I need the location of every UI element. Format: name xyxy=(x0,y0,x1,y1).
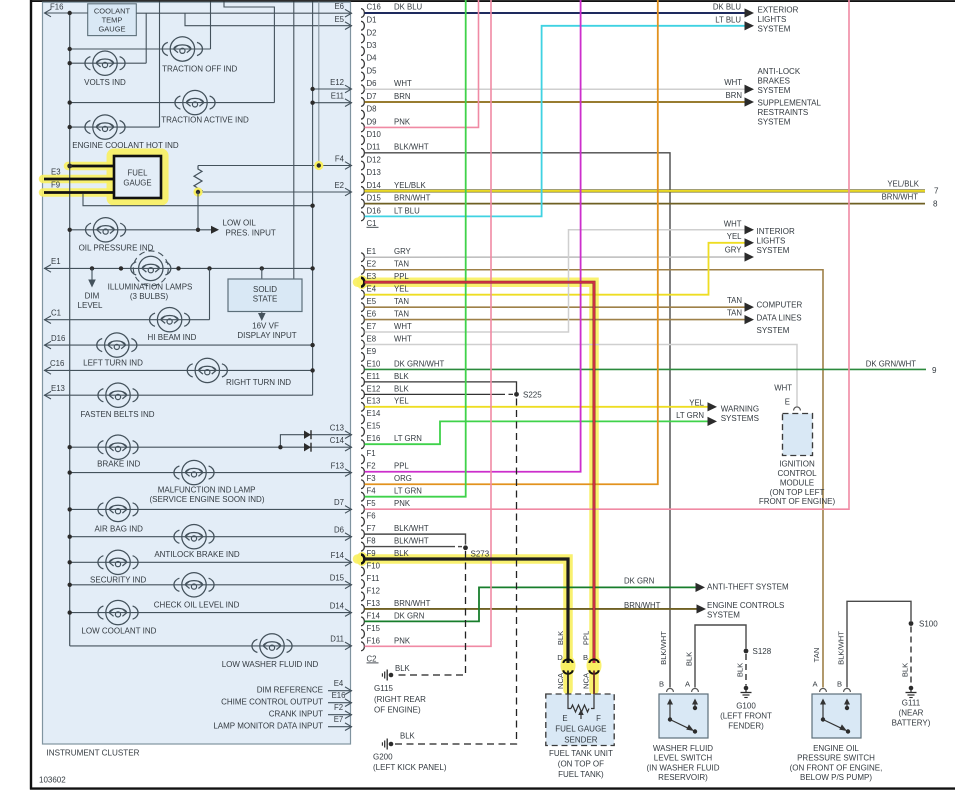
svg-text:E: E xyxy=(785,398,790,407)
svg-text:(3 BULBS): (3 BULBS) xyxy=(130,292,169,301)
pin E16 bracket xyxy=(361,440,364,449)
svg-text:FASTEN BELTS IND: FASTEN BELTS IND xyxy=(80,410,154,419)
wire F16 row to gauge xyxy=(44,12,88,14)
ground G100 xyxy=(744,686,749,691)
svg-text:MALFUNCTION IND LAMP: MALFUNCTION IND LAMP xyxy=(158,485,256,494)
svg-text:S225: S225 xyxy=(523,390,542,399)
svg-text:SYSTEM: SYSTEM xyxy=(757,326,790,335)
svg-text:E8: E8 xyxy=(367,334,377,343)
wire engine B BLK/WHT xyxy=(847,601,911,687)
pin D14 bracket xyxy=(361,187,364,196)
svg-text:INSTRUMENT CLUSTER: INSTRUMENT CLUSTER xyxy=(47,749,140,758)
pin E11 bracket xyxy=(361,377,364,386)
wire traction-active row xyxy=(70,102,275,104)
arrow to ABS WHT xyxy=(745,85,755,94)
wire D15 BRN/WHT xyxy=(365,203,926,205)
svg-text:D7: D7 xyxy=(367,92,377,101)
lamp RIGHT TURN IND xyxy=(187,358,227,382)
pin D16 arrow xyxy=(45,341,52,349)
svg-text:16V VF: 16V VF xyxy=(252,322,279,331)
svg-text:E12: E12 xyxy=(367,384,381,393)
svg-text:RESERVOIR): RESERVOIR) xyxy=(658,773,708,782)
svg-text:D15: D15 xyxy=(330,574,345,583)
svg-text:LIGHTS: LIGHTS xyxy=(758,15,787,24)
svg-text:D4: D4 xyxy=(367,54,378,63)
svg-text:OIL PRESSURE IND: OIL PRESSURE IND xyxy=(79,243,154,252)
svg-text:LOW WASHER FLUID IND: LOW WASHER FLUID IND xyxy=(222,660,319,669)
node F4 riser junction xyxy=(317,163,321,167)
wire E3 PPL highlighted black edge xyxy=(365,282,595,663)
wire dim level stub xyxy=(91,268,93,283)
wire lowwasher row D11 xyxy=(70,645,352,647)
wire 16v stub xyxy=(261,312,263,318)
lamp LOW COOLANT IND xyxy=(98,600,138,624)
svg-text:E4: E4 xyxy=(367,285,377,294)
pin E4 bracket xyxy=(361,290,364,299)
lamp SECURITY IND xyxy=(98,550,138,574)
svg-text:YEL: YEL xyxy=(394,285,409,294)
highlight glow F9 pin xyxy=(357,552,368,566)
svg-text:LOW COOLANT IND: LOW COOLANT IND xyxy=(81,626,156,635)
pin E2 bracket xyxy=(361,265,364,274)
svg-text:GAUGE: GAUGE xyxy=(123,179,151,188)
svg-text:TAN: TAN xyxy=(727,309,742,318)
svg-text:F12: F12 xyxy=(367,586,380,595)
arrow to SRS BRN xyxy=(745,97,755,106)
svg-text:BRN: BRN xyxy=(394,92,410,101)
svg-text:(ON FRONT OF ENGINE,: (ON FRONT OF ENGINE, xyxy=(790,763,883,772)
gauge box FUEL GAUGE xyxy=(114,156,161,198)
svg-text:8: 8 xyxy=(933,199,938,208)
pin E6 arrow xyxy=(345,9,352,17)
svg-text:DIM REFERENCE: DIM REFERENCE xyxy=(257,686,323,695)
svg-text:E14: E14 xyxy=(367,409,382,418)
pin F6 bracket xyxy=(361,517,364,526)
pin F10 bracket xyxy=(361,567,364,576)
wire D16 LT BLU xyxy=(365,26,746,217)
svg-text:BLK: BLK xyxy=(394,372,410,381)
wire E5 feed riser xyxy=(185,13,352,26)
highlight glow F9 cluster wire xyxy=(43,188,112,197)
node oil-resistor junction xyxy=(196,228,200,232)
svg-text:G200: G200 xyxy=(373,752,393,761)
pin D6 bracket xyxy=(361,85,364,94)
svg-text:TAN: TAN xyxy=(812,648,821,663)
wire F16 PNK xyxy=(365,0,492,646)
wire traction-off riser xyxy=(210,2,212,50)
highlight node F4 xyxy=(314,161,323,170)
wire E16 LT GRN xyxy=(365,421,709,444)
wire top jog riser xyxy=(224,2,274,103)
svg-text:D11: D11 xyxy=(330,635,344,644)
lamp CHECK OIL LEVEL IND xyxy=(174,573,214,597)
box SOLID STATE xyxy=(228,279,302,312)
pin F13 bracket xyxy=(361,605,364,614)
arrow dim level xyxy=(88,280,96,288)
node dimbus-rightturn xyxy=(310,368,314,372)
svg-text:F9: F9 xyxy=(367,549,376,558)
svg-text:LT GRN: LT GRN xyxy=(676,411,704,420)
lamp LOW WASHER FLUID IND xyxy=(252,634,292,658)
svg-text:ORG: ORG xyxy=(394,474,412,483)
page top border xyxy=(31,0,955,2)
svg-text:(ON TOP LEFT: (ON TOP LEFT xyxy=(770,488,825,497)
svg-text:BLK/WHT: BLK/WHT xyxy=(837,631,846,665)
connector NCA fuel BLK xyxy=(563,659,572,663)
wire E5 TAN xyxy=(365,306,746,308)
svg-text:BLK: BLK xyxy=(394,549,410,558)
switch engine contact A xyxy=(822,703,824,720)
wire F14 DK GRN xyxy=(365,587,697,621)
svg-text:YEL: YEL xyxy=(689,398,704,407)
svg-text:E1: E1 xyxy=(51,257,61,266)
svg-text:BLK: BLK xyxy=(685,652,694,666)
wire security row F14 xyxy=(70,561,352,563)
svg-text:C16: C16 xyxy=(367,3,381,12)
svg-text:F8: F8 xyxy=(367,536,376,545)
svg-text:E5: E5 xyxy=(334,15,344,24)
wire hi beam riser xyxy=(209,268,211,319)
pin E12 bracket xyxy=(361,390,364,399)
pin F16 arrow xyxy=(45,9,52,17)
svg-text:WASHER FLUID: WASHER FLUID xyxy=(653,744,713,753)
svg-text:DK GRN: DK GRN xyxy=(394,611,424,620)
node illum b xyxy=(119,266,123,270)
wire checkoil row D15 xyxy=(70,584,352,586)
wire solid-state riser xyxy=(293,2,295,280)
wire D6 WHT xyxy=(365,88,746,90)
pin F12 bracket xyxy=(361,592,364,601)
pin D7 arrow xyxy=(345,506,352,514)
svg-text:CHIME CONTROL OUTPUT: CHIME CONTROL OUTPUT xyxy=(221,698,323,707)
svg-text:E7: E7 xyxy=(334,715,344,724)
lamp VOLTS IND xyxy=(85,51,125,75)
svg-text:(IN WASHER FLUID: (IN WASHER FLUID xyxy=(646,763,719,772)
svg-text:D3: D3 xyxy=(367,41,377,50)
pin F3 bracket xyxy=(361,480,364,489)
svg-text:RESTRAINTS: RESTRAINTS xyxy=(758,108,809,117)
arrow to interior lights WHT xyxy=(745,225,755,234)
svg-text:BRN/WHT: BRN/WHT xyxy=(882,193,919,202)
svg-text:F9: F9 xyxy=(51,181,60,190)
wire D7 BRN xyxy=(365,101,746,103)
node dimbus-sense xyxy=(310,204,314,208)
node bus-volts xyxy=(68,61,72,65)
svg-text:WHT: WHT xyxy=(394,322,412,331)
wire F4 LT GRN xyxy=(365,0,466,497)
svg-text:COOLANT: COOLANT xyxy=(94,6,131,15)
svg-text:BLK/WHT: BLK/WHT xyxy=(659,631,668,665)
svg-text:B: B xyxy=(583,653,588,662)
svg-text:C1: C1 xyxy=(367,219,377,228)
pin C13 arrow xyxy=(345,431,352,439)
arrow to computer TAN2 xyxy=(745,315,755,324)
instrument cluster box xyxy=(43,2,351,744)
svg-text:LEVEL: LEVEL xyxy=(78,301,103,310)
node bus-tractionoff xyxy=(68,47,72,51)
connector arc washer A xyxy=(692,688,699,692)
node dimbus-E12 xyxy=(310,87,314,91)
wire F7 BLK/WHT xyxy=(365,534,466,544)
svg-text:SENDER: SENDER xyxy=(564,736,598,745)
highlight glow E3 pin xyxy=(357,275,368,289)
node bus-checkoil xyxy=(68,583,72,587)
svg-text:F4: F4 xyxy=(335,155,345,164)
svg-text:WARNING: WARNING xyxy=(721,405,759,414)
box FUEL GAUGE SENDER xyxy=(546,694,614,746)
pin E11 arrow xyxy=(345,99,352,107)
svg-text:FUEL TANK UNIT: FUEL TANK UNIT xyxy=(549,749,613,758)
svg-text:E1: E1 xyxy=(367,247,377,256)
svg-text:FUEL: FUEL xyxy=(128,169,149,178)
svg-text:D: D xyxy=(557,653,563,662)
switch engine contact B xyxy=(845,706,849,710)
pin D5 bracket xyxy=(361,72,364,81)
lamp OIL PRESSURE IND xyxy=(86,218,126,242)
svg-text:C2: C2 xyxy=(367,655,377,664)
svg-text:OF ENGINE): OF ENGINE) xyxy=(374,705,421,714)
wire illumination row E1 xyxy=(44,267,313,269)
node bus-airbag xyxy=(68,507,72,511)
svg-text:PNK: PNK xyxy=(394,117,411,126)
svg-text:BLK: BLK xyxy=(395,664,411,673)
svg-text:HI BEAM IND: HI BEAM IND xyxy=(148,333,197,342)
wire E4 stub xyxy=(328,690,352,692)
svg-text:F10: F10 xyxy=(367,561,381,570)
wire E11 stub xyxy=(313,102,352,104)
svg-text:BRN/WHT: BRN/WHT xyxy=(394,599,431,608)
svg-text:BLK: BLK xyxy=(736,663,745,677)
pin E4 arrow xyxy=(345,687,352,695)
node bus-malf xyxy=(68,470,72,474)
wire E7 WHT xyxy=(365,230,746,332)
arrow to interior lights GRY xyxy=(745,252,755,261)
node dimbus-E11 xyxy=(310,101,314,105)
pin E3 bracket highlighted xyxy=(361,278,364,287)
pin F4 arrow xyxy=(345,162,352,170)
wire D14 YEL/BLK edge xyxy=(365,189,926,192)
svg-text:BRN: BRN xyxy=(726,91,742,100)
node bus-security xyxy=(68,560,72,564)
svg-text:S100: S100 xyxy=(919,620,938,629)
pin D2 bracket xyxy=(361,34,364,43)
svg-text:TRACTION OFF IND: TRACTION OFF IND xyxy=(162,65,237,74)
node resistor bottom xyxy=(196,190,200,194)
svg-text:SOLID: SOLID xyxy=(253,285,277,294)
node bus-coolanthot xyxy=(68,125,72,129)
svg-text:GRY: GRY xyxy=(394,247,412,256)
svg-text:(LEFT KICK PANEL): (LEFT KICK PANEL) xyxy=(373,763,447,772)
svg-text:E7: E7 xyxy=(367,322,377,331)
svg-text:D15: D15 xyxy=(367,194,382,203)
svg-text:F5: F5 xyxy=(367,499,377,508)
wire E6 TAN xyxy=(365,319,746,321)
svg-text:D14: D14 xyxy=(367,181,382,190)
svg-text:PNK: PNK xyxy=(394,636,411,645)
connector NCA fuel PPL xyxy=(589,659,598,663)
splice S225 xyxy=(514,392,519,397)
svg-text:ANTI-LOCK: ANTI-LOCK xyxy=(758,67,801,76)
svg-text:RIGHT TURN IND: RIGHT TURN IND xyxy=(226,378,291,387)
svg-text:F15: F15 xyxy=(367,624,381,633)
svg-text:TAN: TAN xyxy=(394,310,409,319)
splice S273 xyxy=(463,545,468,550)
svg-text:COMPUTER: COMPUTER xyxy=(757,300,803,309)
splice S100 xyxy=(909,621,914,626)
lamp AIR BAG IND xyxy=(98,497,138,521)
wire oil pressure row xyxy=(70,229,212,231)
svg-text:F13: F13 xyxy=(367,599,380,608)
wire F4 row xyxy=(198,165,352,167)
wire S100 to G111 dashed xyxy=(910,627,912,686)
wire F3 ORG xyxy=(365,0,658,484)
pin E1 arrow xyxy=(45,265,52,273)
wire E3 to fuel gauge (thick) xyxy=(44,178,114,181)
svg-text:YEL: YEL xyxy=(394,397,409,406)
switch washer contact A xyxy=(693,706,697,710)
svg-text:7: 7 xyxy=(934,186,939,195)
gauge box COOLANT TEMP GAUGE xyxy=(88,4,137,36)
svg-text:DIM: DIM xyxy=(85,291,100,300)
svg-text:D10: D10 xyxy=(367,130,382,139)
svg-text:TAN: TAN xyxy=(727,296,742,305)
pin D11 arrow xyxy=(345,642,352,650)
wire E7 stub xyxy=(328,726,352,728)
node illum d xyxy=(207,266,211,270)
pin D14 arrow xyxy=(345,609,352,617)
svg-text:DK GRN/WHT: DK GRN/WHT xyxy=(866,360,916,369)
svg-text:D13: D13 xyxy=(367,168,381,177)
svg-text:B: B xyxy=(837,680,842,689)
svg-text:BRAKE IND: BRAKE IND xyxy=(97,460,140,469)
pin F11 bracket xyxy=(361,580,364,589)
svg-text:BRAKES: BRAKES xyxy=(758,77,790,86)
switch washer blade xyxy=(670,720,692,730)
highlight glow F9 BLK wire xyxy=(358,559,569,690)
diode D C13 xyxy=(304,431,311,439)
wire hi beam row C1 xyxy=(44,319,210,321)
svg-text:SYSTEM: SYSTEM xyxy=(758,117,791,126)
box IGNITION CONTROL MODULE xyxy=(783,414,813,456)
page bottom border xyxy=(30,787,955,789)
box WASHER FLUID LEVEL SWITCH xyxy=(659,694,708,738)
wire E13 YEL xyxy=(365,406,709,408)
node bus-lowcoolant xyxy=(68,610,72,614)
svg-text:WHT: WHT xyxy=(394,334,412,343)
lamp LEFT TURN IND xyxy=(97,333,137,357)
pin D12 bracket xyxy=(361,161,364,170)
node illum a xyxy=(90,266,94,270)
svg-text:E4: E4 xyxy=(334,679,344,688)
pin C16 arrow xyxy=(45,367,52,375)
svg-text:E13: E13 xyxy=(51,384,65,393)
lamp MALFUNCTION IND LAMP xyxy=(174,460,214,484)
svg-text:LOW OIL: LOW OIL xyxy=(223,218,257,227)
pin E13 bracket xyxy=(361,402,364,411)
svg-text:(LEFT FRONT: (LEFT FRONT xyxy=(720,712,772,721)
svg-text:BLK/WHT: BLK/WHT xyxy=(394,536,429,545)
highlight glow fuel gauge box xyxy=(111,153,165,202)
arrow to computer TAN1 xyxy=(745,303,755,312)
wire volts row xyxy=(70,62,147,64)
arrow to exterior lights LT BLU xyxy=(745,21,755,30)
pin E12 arrow xyxy=(345,85,352,93)
arrow 16v xyxy=(258,313,266,321)
svg-text:WHT: WHT xyxy=(724,78,742,87)
svg-text:E3: E3 xyxy=(51,168,61,177)
svg-text:PNK: PNK xyxy=(394,499,411,508)
svg-text:(RIGHT REAR: (RIGHT REAR xyxy=(374,695,426,704)
svg-text:E12: E12 xyxy=(330,78,344,87)
pin D13 bracket xyxy=(361,174,364,183)
wire S273 to G115 dashed xyxy=(394,551,466,675)
svg-text:DATA LINES: DATA LINES xyxy=(757,313,802,322)
svg-text:AIR BAG IND: AIR BAG IND xyxy=(94,525,143,534)
resistor fuel sender xyxy=(571,705,589,712)
pin E13 arrow xyxy=(45,391,52,399)
svg-text:BELOW P/S PUMP): BELOW P/S PUMP) xyxy=(800,773,872,782)
svg-text:STATE: STATE xyxy=(253,295,278,304)
svg-text:SUPPLEMENTAL: SUPPLEMENTAL xyxy=(758,99,822,108)
svg-text:ANTI-THEFT SYSTEM: ANTI-THEFT SYSTEM xyxy=(707,583,789,592)
ground G111 xyxy=(909,686,914,691)
pin E1 bracket xyxy=(361,253,364,262)
wire F9 BLK highlighted xyxy=(365,559,569,663)
svg-text:ENGINE OIL: ENGINE OIL xyxy=(813,744,859,753)
connector arc washer B xyxy=(667,688,674,692)
svg-text:F: F xyxy=(596,714,601,723)
pin D15 bracket xyxy=(361,199,364,208)
wire E12 BLK xyxy=(365,393,506,395)
wire malfunction row F13 xyxy=(70,472,352,474)
highlight glow NCA connector BLK xyxy=(561,656,576,676)
node illum c xyxy=(176,266,180,270)
svg-text:CHECK OIL LEVEL IND: CHECK OIL LEVEL IND xyxy=(154,600,240,609)
arrow to warning LT GRN xyxy=(708,417,718,426)
svg-text:F2: F2 xyxy=(334,703,343,712)
pin D8 bracket xyxy=(361,110,364,119)
svg-text:FUEL GAUGE: FUEL GAUGE xyxy=(555,725,606,734)
wire right turn row C16 xyxy=(44,369,313,371)
wire D11 BLK/WHT xyxy=(365,153,671,688)
svg-text:BLK: BLK xyxy=(400,732,416,741)
wire E1 GRY xyxy=(365,256,746,258)
pin D16 bracket xyxy=(361,212,364,221)
svg-text:EXTERIOR: EXTERIOR xyxy=(758,6,799,15)
wire brake row xyxy=(70,446,352,448)
arrow to anti-theft DK GRN xyxy=(696,583,706,592)
svg-text:9: 9 xyxy=(932,366,937,375)
svg-text:LEFT TURN IND: LEFT TURN IND xyxy=(83,358,143,367)
svg-text:LAMP MONITOR DATA INPUT: LAMP MONITOR DATA INPUT xyxy=(213,722,323,731)
svg-text:C13: C13 xyxy=(330,424,344,433)
svg-text:D12: D12 xyxy=(367,155,381,164)
svg-text:BRN/WHT: BRN/WHT xyxy=(394,194,431,203)
pin F1 bracket xyxy=(361,455,364,464)
svg-text:CONTROL: CONTROL xyxy=(777,469,817,478)
lamp BRAKE IND xyxy=(98,435,138,459)
wire sender E leg xyxy=(568,694,571,709)
svg-text:F14: F14 xyxy=(367,611,381,620)
svg-text:E6: E6 xyxy=(367,310,377,319)
node bus-antilock xyxy=(68,535,72,539)
svg-text:D8: D8 xyxy=(367,105,377,114)
svg-text:F7: F7 xyxy=(367,524,376,533)
node illum f xyxy=(310,266,314,270)
svg-text:G100: G100 xyxy=(736,702,756,711)
wire E11 BLK xyxy=(365,382,517,393)
svg-text:D16: D16 xyxy=(367,206,381,215)
